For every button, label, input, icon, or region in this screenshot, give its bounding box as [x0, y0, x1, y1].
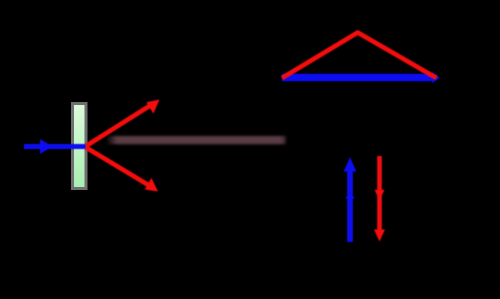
downward field vector (red arrow): [374, 156, 385, 242]
upper diffracted ray (red, up-right): [86, 100, 160, 147]
prism outline (red triangle): [282, 33, 437, 79]
prism base beam (thick blue, arrow right): [282, 72, 440, 83]
upward field vector (blue arrow): [344, 157, 357, 242]
optical axis (dark maroon thick line): [106, 136, 286, 144]
slit / thin-film plate: [73, 104, 87, 189]
lower diffracted ray (red, down-right): [86, 148, 158, 192]
incident beam arrow (blue): [24, 139, 86, 154]
